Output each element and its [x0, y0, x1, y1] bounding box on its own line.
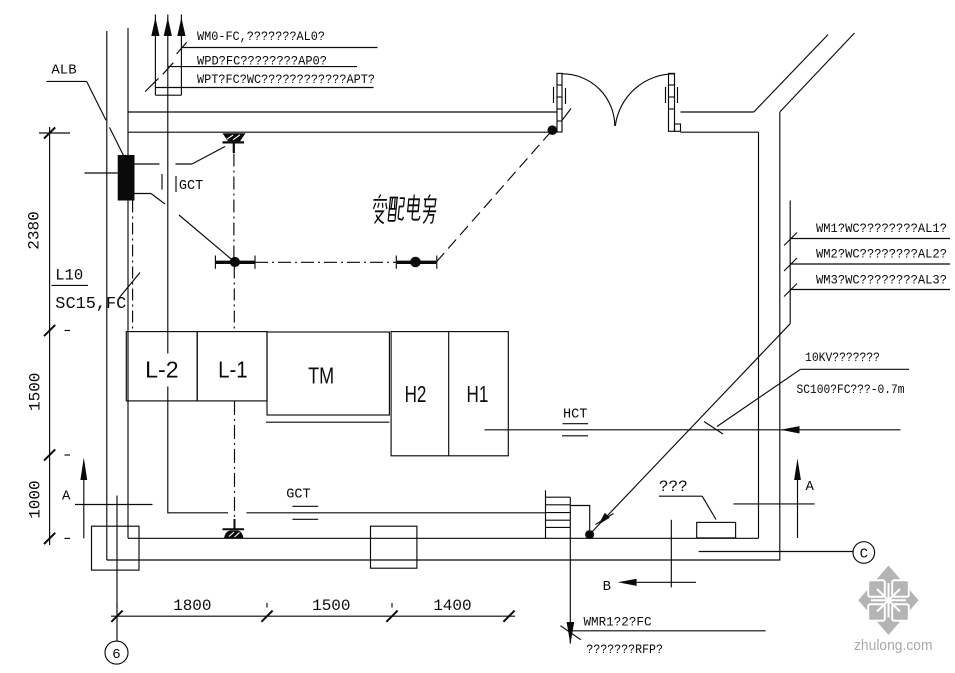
- arrowhead on cable diagonal: [599, 513, 610, 525]
- ALB leader diagonal (with wall gap): [87, 81, 106, 120]
- grid bubble 6: [105, 641, 128, 664]
- arrow up 3: [180, 15, 182, 23]
- wall: outer left wall vertical: [106, 31, 108, 560]
- section mark B: cut line vertical: [670, 520, 672, 588]
- node 1 (filled): [230, 257, 240, 267]
- GCT long conduit line (with gap at symbol): [167, 512, 228, 514]
- busbar 1 thick bar: [215, 261, 255, 264]
- leader ALB to riser symbol: horizontal + diagonal: [135, 163, 160, 165]
- wall: inner left wall vertical: [127, 28, 129, 538]
- svg-text:SC15,FC: SC15,FC: [55, 294, 126, 313]
- trunk vertical for WM feeders: [789, 201, 791, 324]
- bottom dim ext dots: [116, 603, 118, 608]
- wall: outer bottom wall: [107, 559, 781, 561]
- section mark B: arrow left: [618, 579, 637, 586]
- leader from 10KV label to cable: [717, 369, 801, 426]
- svg-text:B: B: [603, 579, 611, 595]
- HCT short underline: [562, 435, 588, 437]
- door: right jamb: [669, 73, 675, 131]
- char 变: [371, 195, 388, 224]
- left dim extension at top: [39, 132, 70, 134]
- tick WM3: [784, 284, 797, 297]
- WM3 underline: [790, 289, 950, 291]
- column at grid 6 (bottom-left): [92, 526, 140, 570]
- svg-text:WPD?FC????????AP0?: WPD?FC????????AP0?: [197, 55, 327, 69]
- leader underline WPT label: [155, 87, 373, 89]
- arrow up 1: [154, 15, 156, 23]
- door: left leaf arc: [562, 74, 615, 126]
- dashed diagonal from busbar2 to door node: [436, 131, 552, 263]
- wall: inner bottom wall: [128, 537, 759, 539]
- ladder right rail (continues down as WMR riser): [569, 497, 571, 643]
- floor riser symbol (top): filled trapezoid with bar and stub: [223, 133, 246, 141]
- svg-text:H2: H2: [405, 381, 427, 407]
- column (bottom-middle): [371, 526, 417, 568]
- leader from SC15 to conduit: [119, 273, 140, 299]
- ??? underline: [659, 495, 702, 497]
- svg-text:GCT: GCT: [286, 488, 310, 503]
- WM1 underline: [790, 238, 950, 240]
- char 房: [422, 195, 438, 224]
- ALB panel (filled): [118, 155, 135, 201]
- dash-dot bus line between busbars: [255, 261, 397, 263]
- node 2 (filled): [410, 257, 421, 268]
- tick WM1: [784, 233, 797, 246]
- TM base line: [266, 421, 389, 423]
- wall: top wall inner (right of door): [681, 131, 759, 133]
- wall: top wall inner (left of door): [128, 131, 557, 133]
- svg-text:ALB: ALB: [51, 63, 76, 79]
- section mark A (left): cut line: [75, 504, 153, 506]
- busbar 1 end ticks: [214, 256, 216, 269]
- svg-text:6: 6: [112, 647, 120, 663]
- door: left jamb: [557, 73, 562, 132]
- char 电: [407, 195, 422, 220]
- svg-text:L-1: L-1: [218, 356, 248, 382]
- grid bubble C: [853, 542, 875, 564]
- dash-dot centerline riser to node1: [233, 154, 235, 258]
- wall: outer right wall vertical: [779, 112, 781, 560]
- svg-text:10KV???????: 10KV???????: [805, 351, 880, 365]
- leader underline WP0 label: [168, 66, 357, 68]
- section mark A (left): arrow up: [80, 458, 87, 481]
- svg-text:WPT?FC?WC????????????APT?: WPT?FC?WC????????????APT?: [197, 73, 375, 87]
- svg-text:WM1?WC????????AL1?: WM1?WC????????AL1?: [816, 222, 947, 236]
- busbar 2 thick bar: [397, 261, 436, 264]
- wall: corridor diagonal outer: [754, 35, 828, 112]
- tick at WP0 leader: [163, 63, 174, 75]
- GCT short underline: [292, 518, 318, 520]
- tick crossing cable near node3: [596, 514, 614, 525]
- branch from ladder to node 3: [570, 506, 589, 531]
- HCT short overline: [563, 423, 589, 425]
- wall: top wall outer (right of door): [681, 111, 754, 113]
- conduit crossing bars near GCT: [161, 174, 163, 190]
- tick WM2: [784, 258, 797, 271]
- watermark: zhulong logo diamond: [858, 566, 918, 636]
- 10KV label underline: [801, 368, 910, 370]
- svg-text:???: ???: [659, 478, 688, 496]
- left dimension line vertical: [49, 127, 51, 545]
- wall: corridor diagonal inner: [780, 33, 855, 112]
- left arrow on HCT line: [781, 426, 800, 433]
- tick at WM0 leader: [177, 42, 187, 54]
- section mark A (right): cut line: [734, 503, 815, 505]
- door: jamb tick marks: [553, 87, 555, 103]
- bottom dim ticks: [111, 611, 122, 622]
- svg-text:A: A: [62, 489, 71, 505]
- left dim ext dots: [65, 330, 71, 332]
- WM2 underline: [790, 263, 950, 265]
- 10KV cable diagonal from node3 to trunk: [590, 324, 791, 535]
- conduit riser WP0 (middle) vertical, runs down into room: [167, 35, 169, 354]
- svg-text:1400: 1400: [433, 597, 471, 615]
- leader ALB to bus node1: [135, 193, 152, 195]
- conduit riser WPT (left) vertical: [154, 35, 156, 95]
- svg-text:GCT: GCT: [179, 179, 203, 194]
- text: 变配电房 (distribution room) hand-drawn strokes: [371, 195, 438, 224]
- conduit riser WM0 (right) vertical: [180, 35, 182, 95]
- cabinet TM: [267, 332, 389, 415]
- svg-text:L10: L10: [55, 267, 83, 285]
- WMR riser down arrow (solid): [567, 622, 575, 645]
- svg-text:TM: TM: [308, 362, 334, 388]
- svg-text:H1: H1: [467, 381, 489, 407]
- divider H2/H1: [448, 332, 450, 456]
- floor riser symbol (bottom): bar + filled dome: [223, 528, 245, 530]
- tick at WPT leader: [145, 78, 158, 91]
- leader underline WM0 label: [181, 47, 377, 49]
- svg-text:???????RFP?: ???????RFP?: [586, 643, 663, 657]
- svg-text:HCT: HCT: [563, 408, 587, 423]
- ladder rungs: [546, 496, 571, 498]
- svg-text:C: C: [860, 547, 868, 563]
- svg-text:WM0-FC,???????AL0?: WM0-FC,???????AL0?: [197, 30, 325, 44]
- bottom dimension line: [111, 615, 515, 617]
- left dim ticks: [44, 127, 55, 138]
- svg-text:A: A: [806, 479, 815, 495]
- dash-dot conduit from ALB down to L-2: [132, 201, 134, 332]
- tick at top of dashed diagonal: [562, 109, 571, 121]
- svg-text:1800: 1800: [173, 597, 211, 615]
- cable tray / ladder left rail: [545, 490, 547, 539]
- equipment box with ??? label: [697, 522, 736, 538]
- tick on WMR riser: [560, 626, 581, 640]
- svg-text:2380: 2380: [26, 211, 44, 249]
- char 配: [387, 198, 405, 221]
- wall: top wall outer (left of door): [128, 111, 557, 113]
- cabinet H2+H1 outline: [391, 332, 508, 456]
- svg-text:WM2?WC????????AL2?: WM2?WC????????AL2?: [816, 248, 947, 262]
- door: right leaf arc: [615, 74, 674, 126]
- tick crossing cable (10KV leader): [704, 422, 723, 435]
- WMR label underline: [572, 630, 766, 632]
- stub line into ALB panel: [85, 172, 118, 174]
- node 3 (filled): [585, 530, 594, 539]
- dash-dot from node1 down to L-1 box: [233, 267, 235, 332]
- svg-text:1500: 1500: [312, 597, 350, 615]
- dash-dot conduit from L-1 down to floor symbol: [234, 401, 236, 519]
- section mark A (right): arrow up: [794, 459, 801, 481]
- node at door (junction): [548, 125, 558, 135]
- GCT short overline: [292, 505, 318, 507]
- conduit bracket bottom line: [155, 94, 181, 96]
- svg-text:zhulong.com: zhulong.com: [854, 638, 933, 654]
- svg-text:L-2: L-2: [145, 356, 179, 382]
- grid line 6 vertical: [116, 496, 118, 642]
- busbar 2 end ticks: [395, 256, 397, 269]
- wall: inner right wall vertical: [758, 132, 760, 538]
- ALB leader underline: [46, 80, 86, 82]
- line to grid bubble C: [699, 551, 853, 553]
- svg-text:WM3?WC????????AL3?: WM3?WC????????AL3?: [816, 274, 947, 288]
- svg-text:1000: 1000: [27, 480, 45, 518]
- ??? leader: [702, 496, 716, 519]
- HCT long line from H1: [485, 429, 901, 431]
- svg-text:SC100?FC???-0.7m: SC100?FC???-0.7m: [797, 383, 905, 397]
- svg-text:1500: 1500: [27, 373, 45, 411]
- L10 underline: [52, 284, 89, 286]
- cabinet L-2: [126, 332, 197, 401]
- svg-text:WMR1?2?FC: WMR1?2?FC: [584, 616, 652, 630]
- arrow up 2: [167, 15, 169, 23]
- cabinet L-1: [197, 332, 267, 401]
